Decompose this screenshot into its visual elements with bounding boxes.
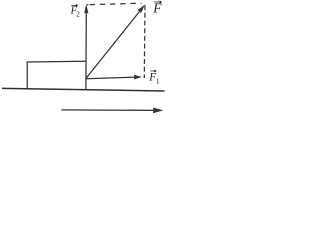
label F2 (vector arrow over F, subscript 2) xyxy=(70,4,81,18)
dashed construction line (right, from F tip down to F1 tip) xyxy=(143,5,146,78)
force vector F1 (horizontal right) xyxy=(86,75,142,80)
dashed construction line (top, from F2 tip to F tip) xyxy=(87,3,142,5)
ground line xyxy=(2,88,165,91)
block (box on ground) xyxy=(27,61,85,89)
force vector F (diagonal resultant) xyxy=(86,5,145,79)
svg-text:2: 2 xyxy=(76,11,80,19)
label F1 (vector arrow over F, subscript 1) xyxy=(148,70,160,86)
label F (vector arrow over F) xyxy=(152,1,162,16)
svg-text:1: 1 xyxy=(156,77,160,86)
velocity arrow below ground xyxy=(62,108,164,114)
force vector F2 (vertical, shaft collinear with box right edge) xyxy=(84,4,88,89)
